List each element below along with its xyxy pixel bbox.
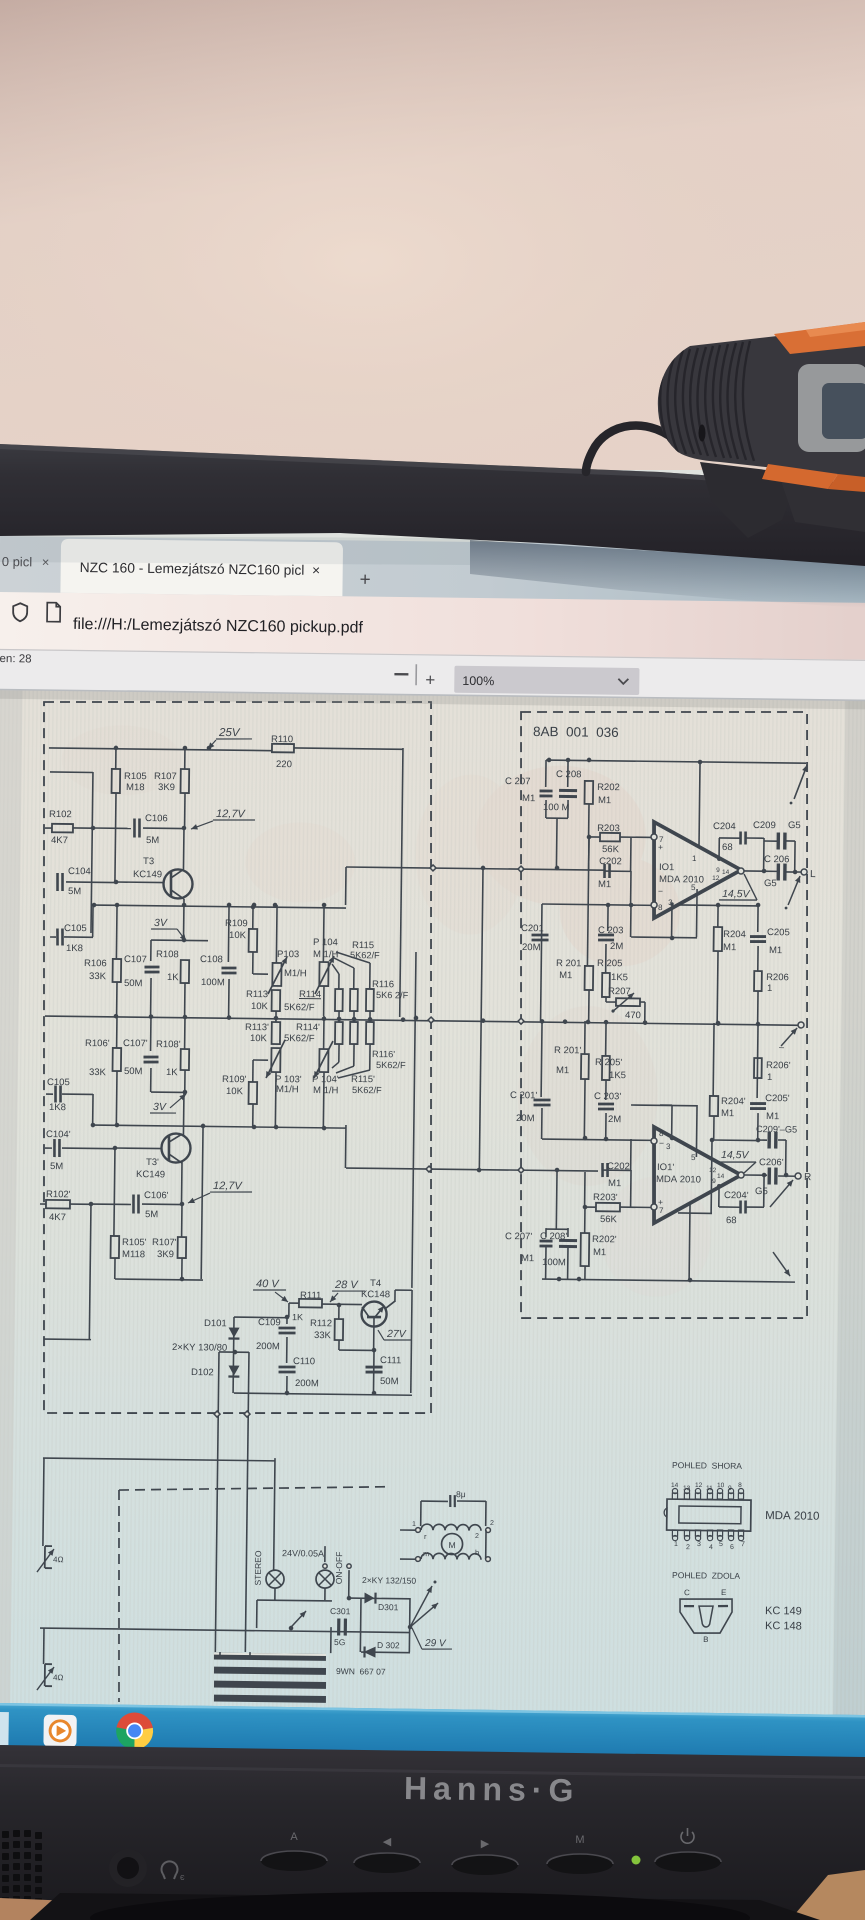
svg-text:C205: C205 xyxy=(767,927,790,938)
svg-text:9WN 667 07: 9WN 667 07 xyxy=(336,1666,386,1677)
wire lower bias rail xyxy=(93,1125,346,1128)
svg-text:R203: R203 xyxy=(597,823,620,834)
svg-text:10K: 10K xyxy=(229,930,247,941)
resistor R206 lower xyxy=(754,1058,762,1078)
svg-text:C: C xyxy=(684,1588,690,1597)
svg-text:P103: P103 xyxy=(277,949,299,960)
svg-text:–: – xyxy=(779,1042,784,1052)
svg-text:POHLED SHORA: POHLED SHORA xyxy=(672,1460,742,1471)
svg-text:4K7: 4K7 xyxy=(49,1212,66,1223)
svg-text:R102': R102' xyxy=(46,1189,71,1200)
svg-text:M1: M1 xyxy=(598,879,611,890)
lamp STEREO xyxy=(266,1570,284,1588)
svg-text:R 201': R 201' xyxy=(554,1045,581,1056)
svg-text:5K62/F: 5K62/F xyxy=(284,1033,315,1044)
svg-text:8: 8 xyxy=(738,1482,742,1489)
resistor R102 lower xyxy=(46,1200,70,1209)
svg-text:2M: 2M xyxy=(608,1114,621,1125)
svg-text:IO1: IO1 xyxy=(659,862,674,873)
svg-text:20M: 20M xyxy=(522,942,541,953)
svg-text:C110: C110 xyxy=(293,1356,315,1367)
svg-text:C201: C201 xyxy=(521,923,544,934)
wire T4 collector xyxy=(394,1290,396,1302)
wire D301 line xyxy=(349,1597,410,1600)
svg-text:R204: R204 xyxy=(723,929,746,940)
wire 8AB top rail xyxy=(546,760,806,763)
svg-text:R113': R113' xyxy=(245,1022,269,1033)
resistor R116 lower xyxy=(369,1016,371,1022)
svg-text:MDA 2010: MDA 2010 xyxy=(656,1174,701,1186)
resistor R106 lower xyxy=(116,1016,118,1048)
capacitor C104 lower xyxy=(53,1139,56,1157)
capacitor C206 lower xyxy=(744,1174,767,1176)
svg-text:C202: C202 xyxy=(599,856,622,867)
svg-text:5K62/F: 5K62/F xyxy=(284,1002,315,1013)
svg-text:R110: R110 xyxy=(271,734,293,745)
svg-text:3: 3 xyxy=(666,1142,671,1151)
svg-text:9: 9 xyxy=(712,1178,716,1185)
svg-text:10: 10 xyxy=(717,1482,725,1489)
svg-text:1: 1 xyxy=(767,983,772,994)
capacitor C107 xyxy=(150,940,152,961)
svg-text:3K9: 3K9 xyxy=(158,782,175,793)
output terminal R xyxy=(795,1173,801,1179)
capacitor C202 lower xyxy=(584,1172,586,1207)
wire feedback loop xyxy=(630,871,632,904)
rail end terminal xyxy=(798,1022,804,1028)
wire op-amp lower rail xyxy=(678,904,758,907)
svg-text:5M: 5M xyxy=(145,1209,158,1220)
svg-text:C111: C111 xyxy=(380,1355,401,1366)
svg-text:200M: 200M xyxy=(295,1378,319,1389)
svg-text:MDA 2010: MDA 2010 xyxy=(659,874,704,886)
resistor R203 xyxy=(589,836,600,838)
capacitor C204 68 xyxy=(718,838,720,859)
terminal arrow top right xyxy=(794,765,807,799)
svg-text:3: 3 xyxy=(697,1541,701,1548)
svg-text:M1: M1 xyxy=(593,1247,606,1258)
svg-text:220: 220 xyxy=(276,759,292,770)
svg-text:12,7V: 12,7V xyxy=(216,808,247,820)
svg-text:40 V: 40 V xyxy=(256,1278,280,1290)
svg-text:▶: ▶ xyxy=(481,1838,490,1850)
wire lower left vertical xyxy=(89,1204,91,1339)
capacitor C206 G5 xyxy=(744,870,777,872)
svg-text:C204: C204 xyxy=(713,821,736,832)
wire V700 xyxy=(699,762,700,847)
svg-text:D102: D102 xyxy=(191,1367,214,1378)
svg-text:5G: 5G xyxy=(334,1637,345,1647)
svg-text:G5: G5 xyxy=(764,878,777,889)
svg-text:POHLED ZDOLA: POHLED ZDOLA xyxy=(672,1570,740,1581)
svg-text:D301: D301 xyxy=(378,1602,399,1612)
wire diode box right side xyxy=(408,1598,411,1652)
svg-text:7: 7 xyxy=(741,1541,745,1548)
svg-text:13: 13 xyxy=(683,1485,691,1492)
svg-text:R108: R108 xyxy=(156,949,179,960)
capacitor C301 5G xyxy=(337,1618,340,1635)
svg-text:100%: 100% xyxy=(462,674,494,688)
capacitor C205 xyxy=(757,905,759,932)
transistor T3 lower KC149 xyxy=(161,1133,190,1162)
resistor R109 xyxy=(252,907,254,929)
svg-text:2: 2 xyxy=(686,1544,690,1551)
svg-text:1: 1 xyxy=(692,854,697,863)
svg-text:◀: ◀ xyxy=(383,1836,392,1848)
svg-text:R203': R203' xyxy=(593,1192,618,1203)
svg-text:KC149: KC149 xyxy=(133,869,162,880)
wire long vertical left xyxy=(215,1352,219,1652)
wire transformer taps xyxy=(219,1652,221,1656)
capacitor C111 xyxy=(366,1365,383,1368)
svg-text:4Ω: 4Ω xyxy=(53,1555,64,1564)
svg-text:5: 5 xyxy=(719,1541,723,1548)
wire bias bottom return xyxy=(115,1279,203,1280)
capacitor C110 xyxy=(279,1365,296,1368)
svg-text:R206': R206' xyxy=(766,1060,791,1071)
wire T4 emitter xyxy=(373,1317,375,1350)
svg-text:7: 7 xyxy=(659,1206,664,1215)
svg-text:C107: C107 xyxy=(124,954,147,965)
svg-text:5K62/F: 5K62/F xyxy=(376,1060,406,1070)
svg-text:14: 14 xyxy=(722,869,730,876)
resistor R108 lower xyxy=(181,1049,190,1070)
IC package MDA2010 top view xyxy=(667,1499,751,1531)
svg-text:R105': R105' xyxy=(122,1237,147,1248)
svg-text:100M: 100M xyxy=(201,977,225,988)
wire supply branch vertical xyxy=(412,952,416,1288)
speaker 1 4ohm xyxy=(44,1546,46,1568)
resistor R202 xyxy=(585,781,594,804)
svg-text:R109': R109' xyxy=(222,1074,247,1085)
resistor R105 xyxy=(115,748,117,769)
resistor R201 xyxy=(585,966,594,990)
capacitor C106 xyxy=(133,819,136,838)
svg-text:R106: R106 xyxy=(84,958,107,969)
svg-text:D101: D101 xyxy=(204,1318,227,1329)
svg-text:1: 1 xyxy=(674,1541,678,1548)
svg-text:50M: 50M xyxy=(124,978,143,989)
svg-text:KC149: KC149 xyxy=(136,1169,165,1180)
resistor R205 xyxy=(602,973,610,997)
wire long vertical right xyxy=(245,1352,249,1652)
svg-text:+: + xyxy=(359,570,370,591)
op-amp IO1 MDA 2010 xyxy=(653,822,742,919)
svg-text:8: 8 xyxy=(658,903,663,912)
svg-text:R202: R202 xyxy=(597,782,620,793)
resistor R110 xyxy=(272,744,294,753)
motor M xyxy=(441,1533,462,1554)
transformer core xyxy=(214,1653,326,1661)
svg-text:12: 12 xyxy=(709,1167,717,1174)
capacitor C105 xyxy=(56,928,59,945)
svg-text:−: − xyxy=(658,886,663,896)
wire supply top xyxy=(289,1302,299,1304)
svg-text:100 M: 100 M xyxy=(543,802,570,813)
capacitor C104 xyxy=(56,873,59,891)
wire lamp bottoms xyxy=(274,1588,276,1600)
svg-text:E: E xyxy=(721,1588,726,1597)
svg-text:24V/0.05A: 24V/0.05A xyxy=(282,1548,324,1559)
resistor R113 xyxy=(272,990,281,1011)
svg-text:50M: 50M xyxy=(380,1376,399,1387)
svg-text:+: + xyxy=(425,670,435,689)
capacitor C108 xyxy=(227,905,230,962)
svg-text:C209'–G5: C209'–G5 xyxy=(756,1124,797,1135)
resistor R106 xyxy=(115,905,118,959)
potentiometer P103 lower xyxy=(271,1048,280,1072)
svg-text:M: M xyxy=(448,1540,455,1550)
svg-text:14: 14 xyxy=(671,1482,679,1489)
svg-text:4K7: 4K7 xyxy=(51,835,68,846)
capacitor 8u loop xyxy=(420,1501,422,1526)
svg-text:C205': C205' xyxy=(765,1093,790,1104)
wire T3 emitter xyxy=(183,899,186,940)
svg-text:33K: 33K xyxy=(89,971,107,982)
svg-text:4: 4 xyxy=(709,1544,713,1551)
svg-text:P 104': P 104' xyxy=(312,1074,339,1085)
svg-text:2×KY 132/150: 2×KY 132/150 xyxy=(362,1575,417,1586)
svg-text:C105: C105 xyxy=(47,1077,70,1088)
svg-text:10K: 10K xyxy=(226,1086,244,1097)
svg-text:R113: R113 xyxy=(246,989,268,1000)
wire C202 lower input xyxy=(602,1169,631,1171)
wire left input top xyxy=(50,771,93,774)
wire bias rail 3V xyxy=(93,905,346,908)
svg-text:5M: 5M xyxy=(50,1161,63,1172)
resistor R201 lower xyxy=(584,1021,586,1054)
resistor R205 lower xyxy=(605,1021,607,1056)
svg-text:G5: G5 xyxy=(788,820,801,831)
op-amp IO1 lower MDA 2010 xyxy=(653,1127,742,1224)
svg-text:KC 148: KC 148 xyxy=(765,1620,802,1632)
capacitor C201 xyxy=(532,933,549,936)
resistor R116 xyxy=(336,952,370,963)
resistor R107 xyxy=(184,748,186,769)
svg-text:R204': R204' xyxy=(721,1096,746,1107)
svg-text:b: b xyxy=(475,1548,479,1557)
resistor R112 xyxy=(338,1305,340,1319)
terminal arrow bottom right xyxy=(773,1252,791,1276)
resistor R107 lower xyxy=(181,1204,183,1237)
svg-text:C 207': C 207' xyxy=(505,1231,532,1242)
svg-text:C104: C104 xyxy=(68,866,91,877)
wire feedback vertical xyxy=(479,868,483,1170)
capacitor C207 lower xyxy=(545,1247,547,1279)
svg-text:9: 9 xyxy=(728,1485,732,1492)
svg-text:200M: 200M xyxy=(256,1341,280,1352)
svg-text:M1: M1 xyxy=(598,795,611,806)
svg-text:en: 28: en: 28 xyxy=(0,653,32,665)
svg-text:M1: M1 xyxy=(556,1065,569,1076)
svg-text:KC148: KC148 xyxy=(361,1289,390,1300)
svg-text:2: 2 xyxy=(475,1533,479,1540)
svg-text:T4: T4 xyxy=(370,1278,381,1289)
svg-text:8μ: 8μ xyxy=(456,1489,466,1499)
resistor R105 lower xyxy=(114,1148,115,1236)
resistor R115 lower xyxy=(353,1016,355,1022)
svg-text:100M: 100M xyxy=(542,1257,566,1268)
svg-text:M: M xyxy=(575,1834,584,1846)
svg-text:R 205': R 205' xyxy=(595,1057,622,1068)
svg-text:2M: 2M xyxy=(610,941,623,952)
capacitor C106 lower xyxy=(132,1195,135,1214)
resistor R203 lower xyxy=(585,1206,596,1208)
svg-text:50M: 50M xyxy=(124,1066,143,1077)
svg-text:L: L xyxy=(810,869,816,880)
capacitor C205 lower xyxy=(756,1023,759,1098)
resistor R114 lower xyxy=(338,1016,340,1022)
svg-text:C106: C106 xyxy=(145,813,168,824)
dashed partition line xyxy=(119,1483,388,1493)
svg-text:14,5V: 14,5V xyxy=(722,888,751,900)
wire center rail xyxy=(45,1016,801,1025)
svg-text:KC 149: KC 149 xyxy=(765,1605,802,1617)
svg-text:M1: M1 xyxy=(766,1111,779,1122)
svg-text:M1/H: M1/H xyxy=(276,1084,299,1095)
svg-text:G5: G5 xyxy=(755,1186,768,1197)
resistor R204 lower xyxy=(712,1023,715,1096)
svg-text:1K8: 1K8 xyxy=(66,943,83,954)
capacitor C208 lower xyxy=(567,1247,569,1279)
potentiometer P104 M1/H xyxy=(319,962,328,986)
svg-text:12: 12 xyxy=(695,1482,703,1489)
svg-text:C105: C105 xyxy=(64,923,87,934)
svg-text:3K9: 3K9 xyxy=(157,1249,174,1260)
svg-text:5: 5 xyxy=(691,1153,696,1162)
wire upper channel signal xyxy=(345,867,347,905)
wire main 29V line xyxy=(289,1626,294,1631)
svg-text:56K: 56K xyxy=(602,844,620,855)
capacitor C204 lower 68 xyxy=(718,1186,720,1207)
svg-text:C206': C206' xyxy=(759,1157,784,1168)
svg-text:1K: 1K xyxy=(167,972,179,983)
wire lower feedback loop xyxy=(630,1139,632,1170)
svg-text:1K5: 1K5 xyxy=(609,1070,626,1081)
resistor R115 xyxy=(334,958,354,968)
wire speaker line 1 xyxy=(43,1458,275,1461)
svg-text:ON-OFF: ON-OFF xyxy=(334,1552,344,1585)
svg-text:1K: 1K xyxy=(166,1067,178,1078)
resistor R108 xyxy=(180,960,189,983)
diode D101 2xKY130/80 xyxy=(232,1317,235,1393)
svg-text:25V: 25V xyxy=(218,727,241,739)
wire speaker line 2 xyxy=(40,1628,410,1633)
svg-text:R202': R202' xyxy=(592,1234,617,1245)
svg-text:C109: C109 xyxy=(258,1317,281,1328)
svg-text:R108': R108' xyxy=(156,1039,181,1050)
potentiometer P103 M1/H xyxy=(275,905,278,963)
svg-text:5K6 2/F: 5K6 2/F xyxy=(376,990,409,1000)
wire switch column xyxy=(348,1570,350,1598)
svg-text:M118: M118 xyxy=(122,1249,145,1260)
svg-text:R107: R107 xyxy=(154,771,177,782)
svg-text:+: + xyxy=(658,842,663,852)
svg-text:1: 1 xyxy=(412,1521,416,1528)
svg-text:8: 8 xyxy=(659,1129,664,1138)
resistor R102 xyxy=(52,824,73,833)
capacitor C203 xyxy=(607,905,609,931)
svg-text:14,5V: 14,5V xyxy=(721,1149,750,1161)
svg-text:Hanns·G: Hanns·G xyxy=(404,1770,580,1808)
svg-text:68: 68 xyxy=(726,1215,737,1226)
svg-text:MDA 2010: MDA 2010 xyxy=(765,1510,819,1523)
motor coil top xyxy=(421,1524,481,1531)
svg-text:10K: 10K xyxy=(251,1001,269,1012)
svg-text:2: 2 xyxy=(490,1520,494,1527)
wire D302 line xyxy=(361,1651,410,1654)
svg-text:C209: C209 xyxy=(753,820,776,831)
svg-text:33K: 33K xyxy=(89,1067,107,1078)
wire pin8 line xyxy=(542,904,654,905)
wire T3 collector xyxy=(182,828,185,869)
svg-text:D 302: D 302 xyxy=(377,1640,400,1650)
svg-text:R112: R112 xyxy=(310,1318,332,1329)
svg-text:1K: 1K xyxy=(292,1312,303,1322)
capacitor C109 xyxy=(286,1317,288,1324)
wire C207 C208 ground xyxy=(546,817,568,819)
switch arrow xyxy=(291,1611,306,1627)
wire T3 lower collector xyxy=(180,1162,183,1204)
switch arrows 2xKY132/150 xyxy=(410,1586,432,1628)
svg-text:R109: R109 xyxy=(225,918,248,929)
left channel dashed boundary box xyxy=(35,697,439,1418)
svg-text:M1: M1 xyxy=(522,793,535,804)
svg-text:11: 11 xyxy=(706,1485,713,1492)
resistor R202 lower xyxy=(580,1233,589,1266)
junction diamonds on dashed crossings xyxy=(428,1017,434,1023)
svg-text:M 1/H: M 1/H xyxy=(313,1085,339,1096)
svg-text:28 V: 28 V xyxy=(334,1279,359,1291)
wire rectifier mid tap xyxy=(219,1351,249,1353)
wire op-amp lower rail 2 xyxy=(678,1212,712,1214)
svg-text:C 207: C 207 xyxy=(505,776,530,787)
svg-text:68: 68 xyxy=(722,842,733,853)
svg-text:R116': R116' xyxy=(372,1049,395,1059)
svg-text:C 203': C 203' xyxy=(594,1091,621,1102)
svg-text:R102: R102 xyxy=(49,809,72,820)
wire 25V supply rail xyxy=(49,748,272,751)
svg-text:M1: M1 xyxy=(721,1108,734,1119)
svg-text:−: − xyxy=(659,1138,664,1148)
svg-text:IO1': IO1' xyxy=(657,1162,674,1173)
svg-text:M1: M1 xyxy=(559,970,572,981)
svg-text:A: A xyxy=(290,1831,298,1843)
capacitor C203 lower xyxy=(605,1113,607,1139)
svg-text:M1: M1 xyxy=(608,1178,621,1189)
svg-text:P 104: P 104 xyxy=(313,937,338,948)
svg-text:M1/H: M1/H xyxy=(284,968,307,979)
svg-text:5M: 5M xyxy=(68,886,81,897)
resistor R114 xyxy=(332,964,339,974)
capacitor C107 lower xyxy=(150,1016,152,1051)
svg-text:C107': C107' xyxy=(123,1038,148,1049)
svg-text:STEREO: STEREO xyxy=(253,1550,263,1585)
svg-text:R107': R107' xyxy=(152,1237,177,1248)
svg-text:R105: R105 xyxy=(124,771,147,782)
wire C202 input xyxy=(604,870,631,872)
svg-text:C204': C204' xyxy=(724,1190,749,1201)
svg-text:470: 470 xyxy=(625,1010,641,1021)
svg-text:R106': R106' xyxy=(85,1038,110,1049)
svg-text:1K8: 1K8 xyxy=(49,1102,66,1113)
svg-text:R 201: R 201 xyxy=(556,958,581,969)
svg-text:6: 6 xyxy=(730,1544,734,1551)
capacitor C209 G5 xyxy=(764,840,777,842)
svg-text:27V: 27V xyxy=(386,1328,407,1340)
svg-text:C301: C301 xyxy=(330,1606,351,1616)
svg-text:C 208': C 208' xyxy=(540,1231,567,1242)
